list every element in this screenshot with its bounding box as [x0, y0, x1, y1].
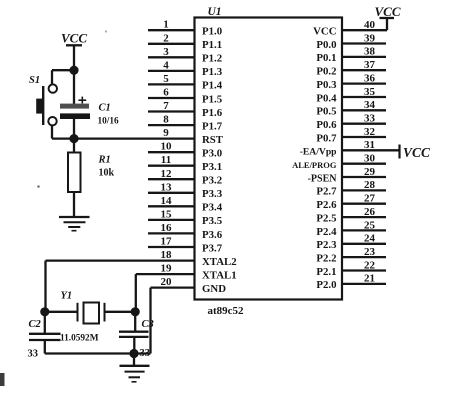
svg-text:P1.1: P1.1: [202, 39, 222, 51]
svg-text:at89c52: at89c52: [208, 305, 245, 317]
svg-text:P3.7: P3.7: [202, 242, 223, 254]
svg-text:P2.2: P2.2: [316, 252, 336, 264]
svg-text:S1: S1: [29, 75, 40, 86]
svg-text:18: 18: [161, 249, 173, 261]
svg-text:P1.5: P1.5: [202, 93, 222, 105]
svg-text:8: 8: [163, 114, 169, 126]
svg-text:P1.2: P1.2: [202, 53, 222, 65]
svg-text:P0.5: P0.5: [316, 106, 336, 118]
svg-text:4: 4: [163, 59, 169, 71]
svg-text:2: 2: [163, 32, 169, 44]
svg-text:5: 5: [163, 73, 169, 85]
svg-text:P2.4: P2.4: [316, 226, 337, 238]
svg-text:31: 31: [364, 139, 375, 151]
svg-text:P0.1: P0.1: [316, 52, 336, 64]
svg-text:P1.0: P1.0: [202, 26, 222, 38]
svg-text:11: 11: [161, 154, 171, 166]
svg-text:27: 27: [364, 193, 376, 205]
svg-text:19: 19: [161, 263, 173, 275]
svg-text:7: 7: [163, 100, 169, 112]
svg-text:P2.3: P2.3: [316, 239, 337, 251]
svg-text:-PSEN: -PSEN: [308, 173, 338, 184]
svg-text:33: 33: [364, 112, 376, 124]
svg-text:24: 24: [364, 233, 376, 245]
svg-text:VCC: VCC: [403, 145, 431, 160]
svg-text:P2.5: P2.5: [316, 212, 336, 224]
svg-text:P3.2: P3.2: [202, 175, 222, 187]
svg-text:P3.1: P3.1: [202, 161, 222, 173]
svg-text:P2.7: P2.7: [316, 186, 337, 198]
svg-text:P3.0: P3.0: [202, 147, 222, 159]
svg-text:26: 26: [364, 206, 376, 218]
svg-text:U1: U1: [208, 6, 222, 18]
svg-text:P1.6: P1.6: [202, 107, 223, 119]
svg-text:P3.3: P3.3: [202, 188, 223, 200]
svg-text:P3.6: P3.6: [202, 229, 223, 241]
svg-text:10/16: 10/16: [98, 117, 120, 127]
svg-text:34: 34: [364, 99, 376, 111]
svg-text:XTAL2: XTAL2: [202, 256, 237, 268]
svg-text:9: 9: [163, 127, 169, 139]
svg-text:C3: C3: [142, 319, 154, 330]
svg-text:38: 38: [364, 46, 376, 58]
svg-text:P0.7: P0.7: [316, 132, 337, 144]
svg-text:25: 25: [364, 219, 376, 231]
svg-text:P0.0: P0.0: [316, 39, 336, 51]
svg-text:R1: R1: [98, 155, 111, 166]
svg-text:35: 35: [364, 86, 376, 98]
svg-text:17: 17: [161, 236, 173, 248]
svg-text:P2.1: P2.1: [316, 266, 336, 278]
svg-text:3: 3: [163, 46, 169, 58]
svg-text:10k: 10k: [99, 168, 115, 179]
svg-text:P0.4: P0.4: [316, 92, 337, 104]
svg-text:C2: C2: [29, 319, 42, 330]
svg-text:33: 33: [140, 348, 151, 359]
svg-text:P1.3: P1.3: [202, 66, 223, 78]
svg-text:P0.3: P0.3: [316, 79, 337, 91]
svg-text:11.0592M: 11.0592M: [60, 334, 99, 344]
svg-text:VCC: VCC: [313, 26, 336, 38]
svg-text:P1.7: P1.7: [202, 120, 223, 132]
svg-text:13: 13: [161, 181, 173, 193]
svg-text:ALE/PROG: ALE/PROG: [292, 160, 337, 170]
svg-text:P3.4: P3.4: [202, 202, 223, 214]
svg-text:37: 37: [364, 59, 376, 71]
svg-text:39: 39: [364, 32, 376, 44]
svg-text:36: 36: [364, 72, 376, 84]
svg-text:6: 6: [163, 86, 169, 98]
svg-text:P2.6: P2.6: [316, 199, 337, 211]
svg-text:Y1: Y1: [61, 291, 73, 302]
svg-text:P2.0: P2.0: [316, 279, 336, 291]
svg-text:32: 32: [364, 126, 376, 138]
svg-text:40: 40: [364, 19, 376, 31]
svg-text:-EA/Vpp: -EA/Vpp: [300, 147, 337, 158]
svg-text:28: 28: [364, 179, 376, 191]
svg-text:VCC: VCC: [374, 4, 400, 19]
svg-text:14: 14: [161, 195, 173, 207]
svg-text:P0.6: P0.6: [316, 119, 337, 131]
svg-text:20: 20: [161, 276, 173, 288]
svg-text:16: 16: [161, 222, 173, 234]
svg-text:GND: GND: [202, 283, 226, 295]
svg-text:12: 12: [161, 168, 173, 180]
svg-text:1: 1: [163, 19, 169, 31]
svg-text:VCC: VCC: [61, 31, 87, 46]
svg-text:P3.5: P3.5: [202, 215, 222, 227]
svg-text:XTAL1: XTAL1: [202, 269, 237, 281]
svg-text:C1: C1: [99, 103, 111, 114]
svg-text:21: 21: [364, 273, 375, 285]
svg-text:30: 30: [364, 153, 376, 165]
svg-text:P0.2: P0.2: [316, 66, 336, 78]
svg-text:RST: RST: [202, 134, 224, 146]
svg-text:29: 29: [364, 166, 376, 178]
svg-text:P1.4: P1.4: [202, 80, 223, 92]
svg-text:15: 15: [161, 208, 173, 220]
svg-text:33: 33: [28, 349, 39, 360]
svg-text:22: 22: [364, 259, 376, 271]
svg-text:23: 23: [364, 246, 376, 258]
svg-text:10: 10: [161, 141, 173, 153]
